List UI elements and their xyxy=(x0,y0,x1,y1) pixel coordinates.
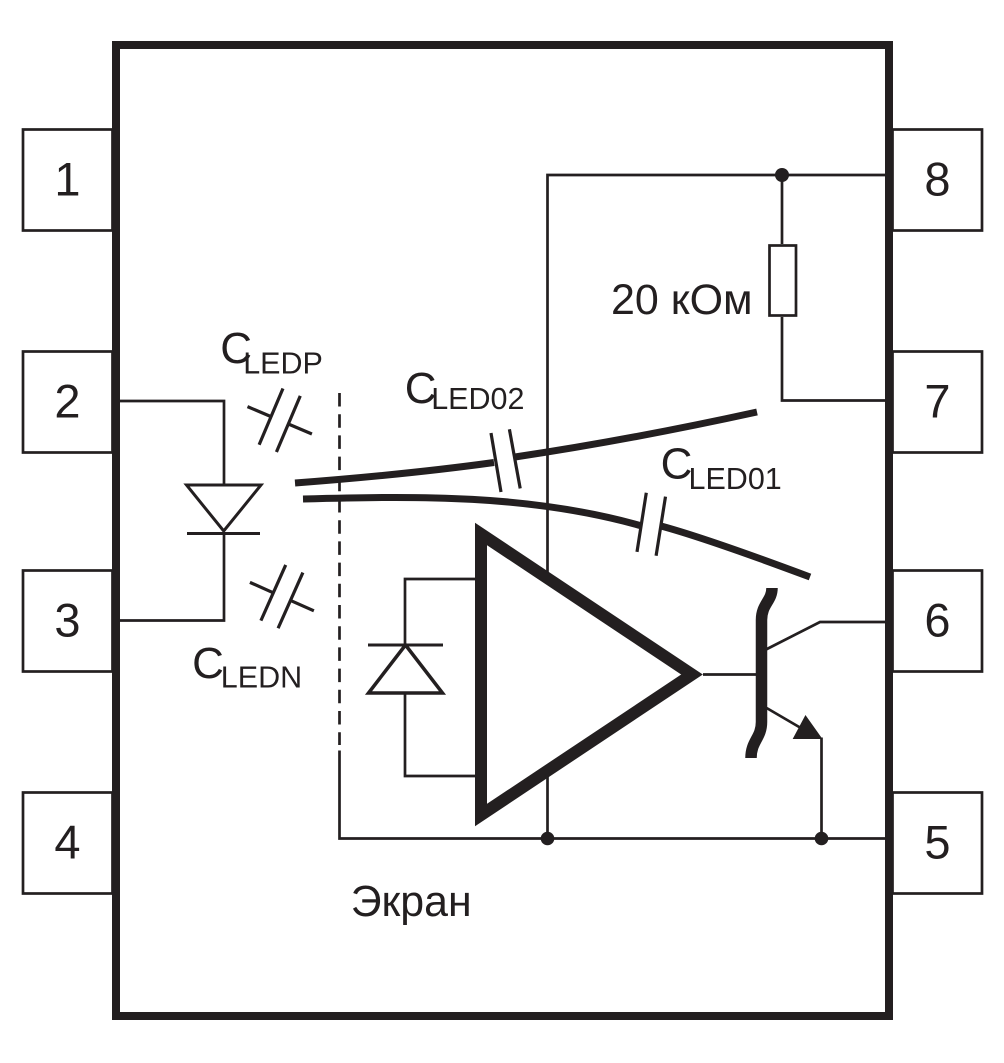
svg-text:LED02: LED02 xyxy=(431,382,524,416)
svg-text:1: 1 xyxy=(54,153,80,206)
svg-text:4: 4 xyxy=(54,816,80,869)
svg-text:8: 8 xyxy=(924,153,950,206)
svg-text:Экран: Экран xyxy=(351,877,472,926)
svg-text:3: 3 xyxy=(54,594,80,647)
svg-text:2: 2 xyxy=(54,375,80,428)
svg-text:6: 6 xyxy=(924,594,950,647)
svg-text:LEDN: LEDN xyxy=(221,661,302,695)
svg-text:7: 7 xyxy=(924,375,950,428)
svg-text:20 кОм: 20 кОм xyxy=(611,276,753,324)
svg-text:5: 5 xyxy=(924,816,950,869)
svg-text:LEDP: LEDP xyxy=(243,347,323,381)
svg-text:C: C xyxy=(192,639,224,688)
svg-text:LED01: LED01 xyxy=(689,462,782,496)
